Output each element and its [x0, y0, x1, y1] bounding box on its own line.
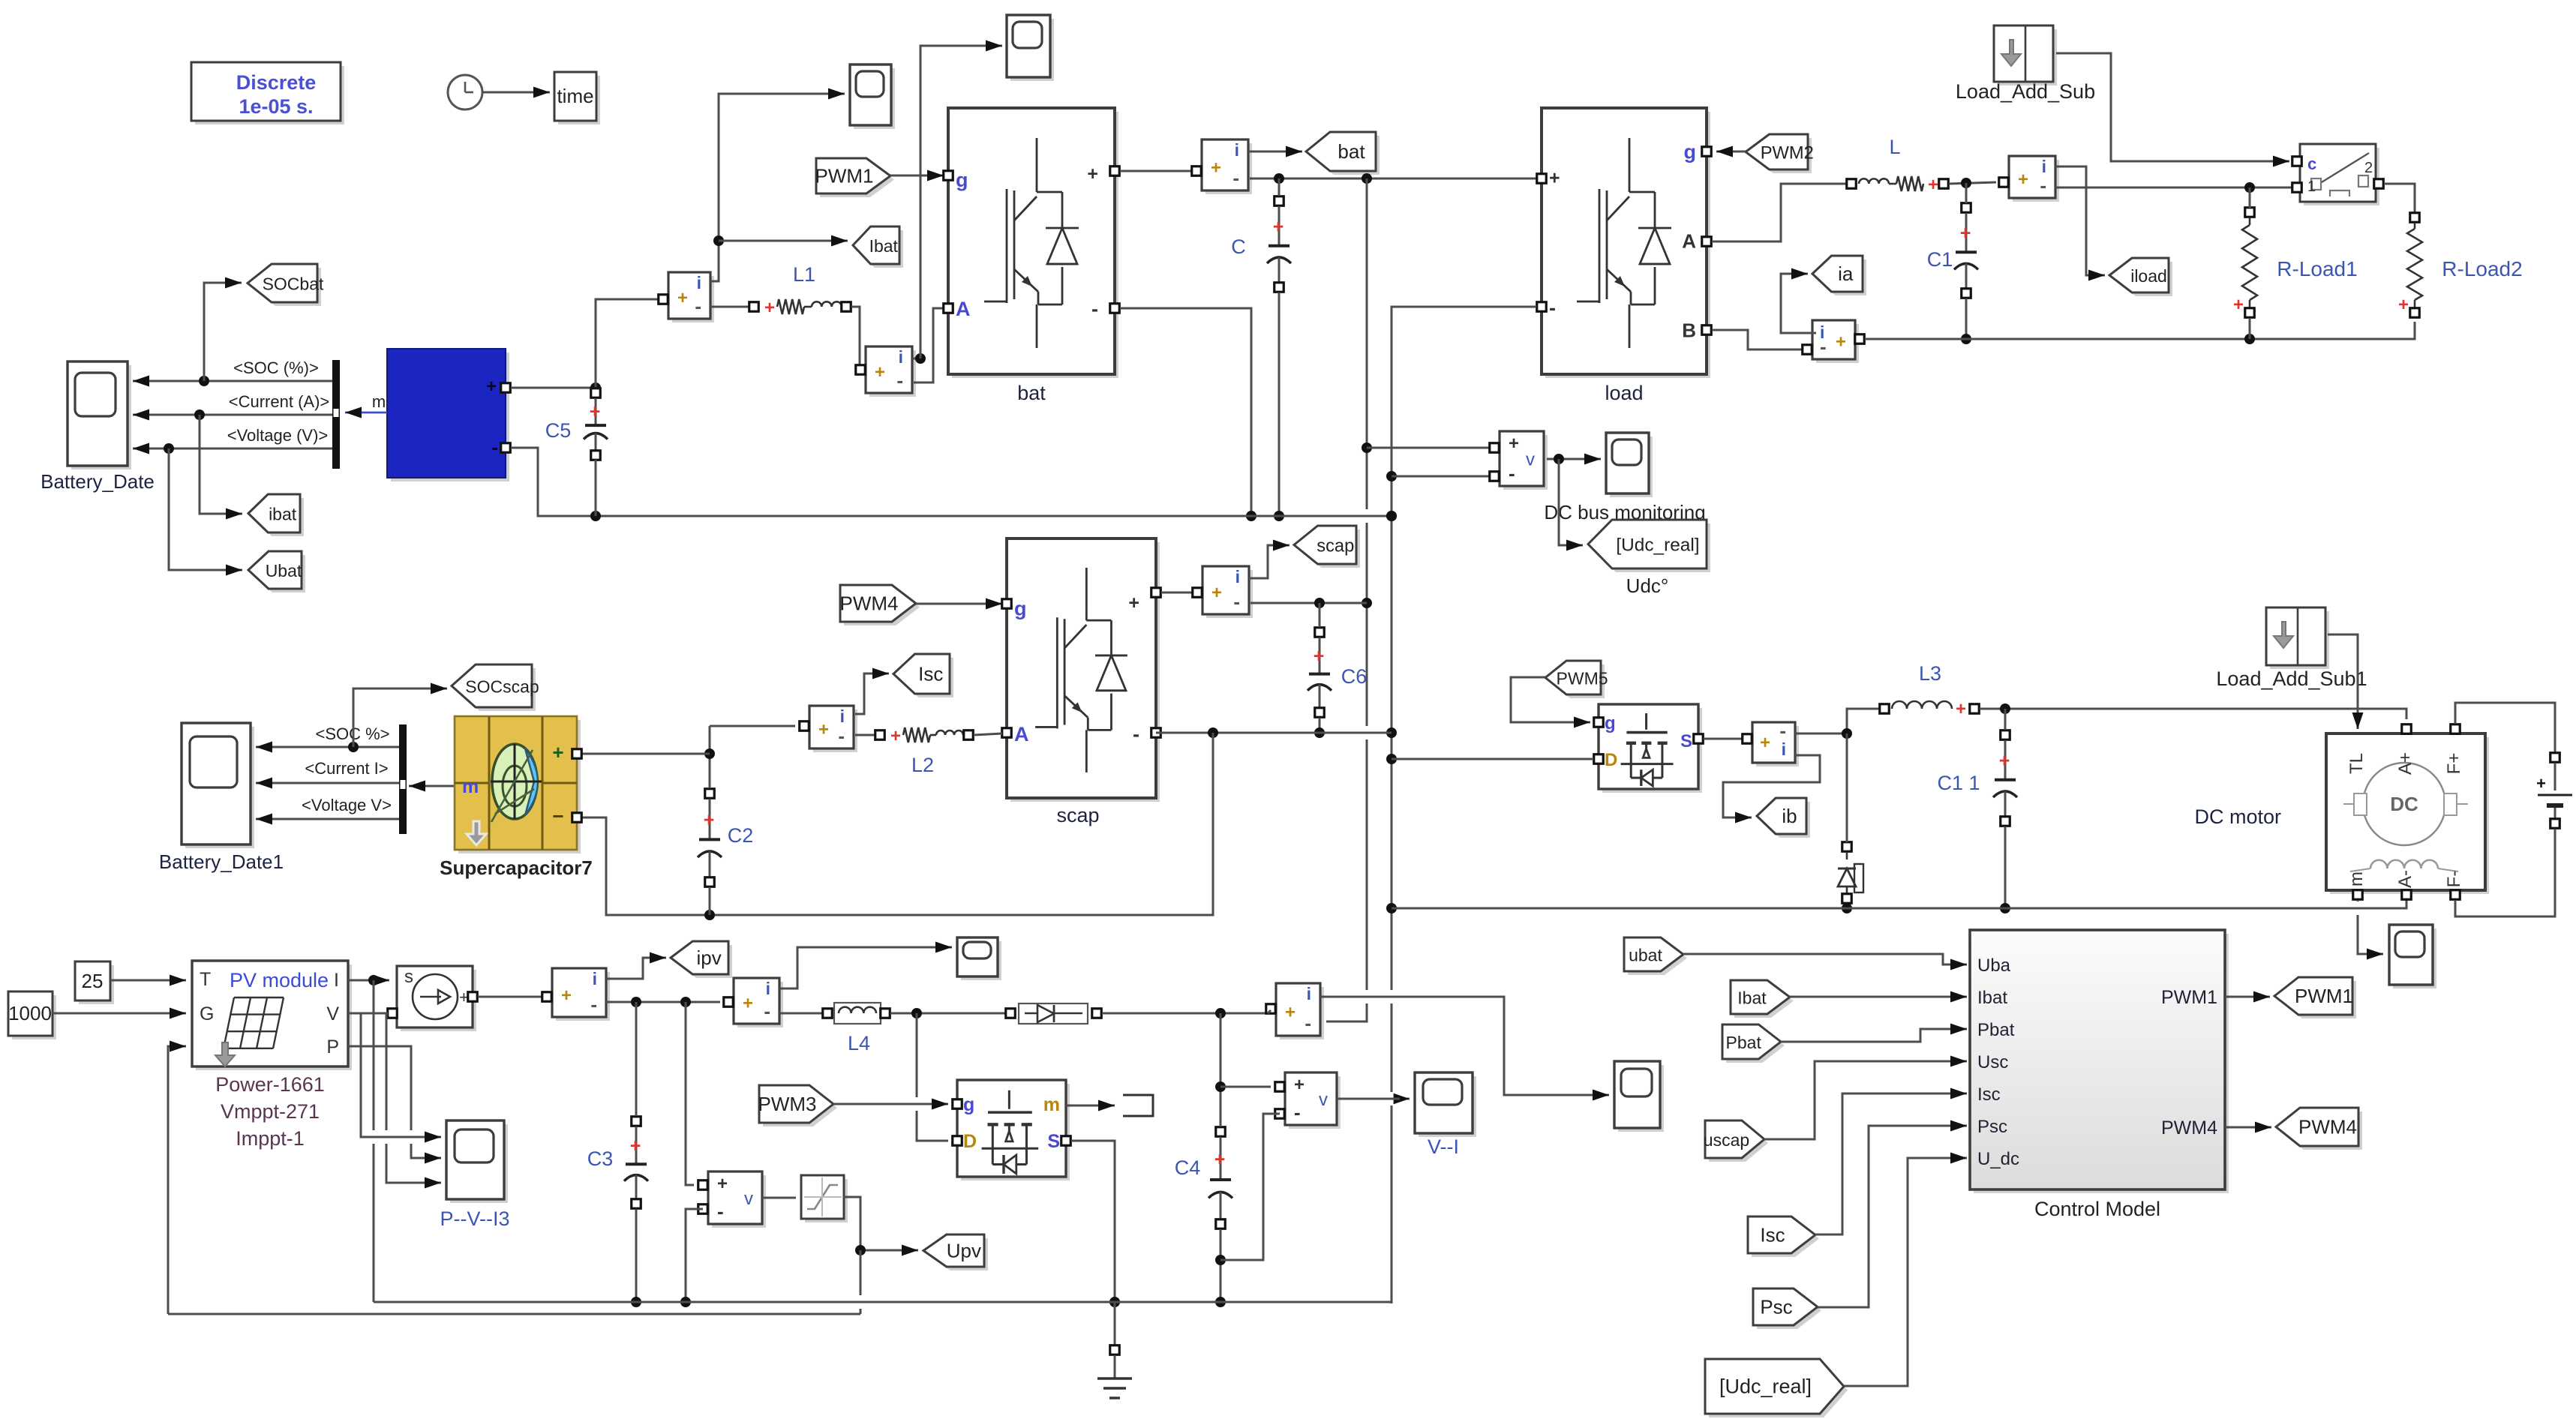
goto tag Ibat	[853, 226, 903, 268]
capacitor C	[1231, 196, 1291, 292]
rail DC motor bottom	[1392, 900, 2406, 908]
svg-text:-: -	[1509, 462, 1515, 484]
svg-text:+: +	[561, 985, 572, 1006]
svg-text:+: +	[2536, 774, 2546, 793]
svg-text:−: −	[552, 805, 563, 827]
terminator	[1123, 1095, 1153, 1116]
from tag PWM3	[758, 1085, 838, 1126]
diode vertical with snubber	[1838, 842, 1863, 904]
wire down to D	[917, 1013, 948, 1141]
svg-text:A: A	[956, 298, 971, 320]
goto tag Upv	[923, 1234, 988, 1270]
wire C4 top stub	[1220, 1013, 1222, 1126]
svg-text:i: i	[899, 347, 903, 367]
junction DCplus rail top	[1362, 173, 1372, 184]
svg-text:+: +	[1549, 167, 1560, 188]
wire D input	[1392, 758, 1593, 760]
svg-text:s: s	[404, 967, 413, 987]
goto tag ibat	[248, 494, 304, 536]
wire sensor2 i to vertical	[912, 358, 920, 360]
wire supercap m to bus (arrow)	[409, 781, 455, 792]
svg-text:C3: C3	[587, 1147, 614, 1170]
svg-text:L4: L4	[848, 1032, 870, 1054]
junction bat minus rail	[1246, 511, 1256, 521]
wire L to C1 junction	[1949, 182, 1996, 184]
svg-text:+: +	[1956, 699, 1966, 719]
wire Vminus tap	[1392, 475, 1489, 478]
svg-text:S: S	[1047, 1131, 1060, 1152]
current sensor Isc	[800, 706, 857, 752]
resistor R-Load2	[2398, 213, 2523, 318]
current sensor scap out	[1193, 566, 1253, 618]
wire sensor6 i to scap tag	[1249, 540, 1290, 579]
wire sensor8 minus	[606, 1001, 720, 1003]
svg-text:ia: ia	[1838, 262, 1854, 285]
subsystem Load_Add_Sub	[1956, 25, 2095, 103]
svg-text:-: -	[1233, 590, 1240, 613]
junction DCminus rail977	[1386, 727, 1397, 738]
svg-text:G: G	[200, 1003, 214, 1024]
svg-text:i: i	[593, 969, 597, 988]
wire load A to L	[1712, 184, 1847, 241]
wire PWM5 to g	[1511, 677, 1590, 728]
wire RLoad1 bottom stub	[2249, 318, 2251, 339]
label SOC(%)	[233, 358, 319, 377]
svg-text:+: +	[486, 376, 497, 397]
wire PWM1 out	[2225, 991, 2270, 1003]
junction x1617 on scap rail	[1208, 727, 1218, 738]
junction C3 rail	[631, 1297, 641, 1307]
wire scap plus to sensor6	[1161, 592, 1197, 594]
svg-text:P--V--I3: P--V--I3	[440, 1207, 509, 1230]
svg-text:Ibat: Ibat	[1977, 988, 2007, 1008]
DC voltage source battery	[2536, 753, 2572, 829]
scope top	[1007, 15, 1054, 81]
from tag Isc2	[1748, 1216, 1819, 1257]
wire V to source minus	[348, 1012, 388, 1015]
PV module block	[192, 961, 352, 1150]
svg-text:[Udc_real]: [Udc_real]	[1719, 1375, 1812, 1398]
wire to Ubat	[169, 448, 242, 576]
svg-text:+: +	[1128, 592, 1139, 613]
svg-text:Control Model: Control Model	[2034, 1198, 2160, 1220]
svg-text:DC motor: DC motor	[2194, 805, 2281, 828]
current sensor iload	[1999, 156, 2059, 202]
label Voltage(V)	[227, 426, 329, 445]
svg-text:T: T	[200, 969, 211, 990]
wire C3 up stub	[635, 1002, 638, 1116]
wire Vplus tap	[1367, 447, 1489, 449]
capacitor C3	[587, 1117, 648, 1209]
wire C bottom to rail	[1278, 292, 1280, 516]
wire load B to sensor4	[1712, 330, 1809, 349]
svg-text:[Udc_real]: [Udc_real]	[1616, 535, 1699, 556]
wire Voltage row	[256, 814, 399, 825]
svg-text:-: -	[1232, 166, 1239, 189]
wire RLoad1 top stub	[2249, 187, 2251, 208]
svg-text:PWM2: PWM2	[1761, 144, 1814, 163]
svg-text:PWM4: PWM4	[2161, 1117, 2217, 1138]
junction C11 top	[2000, 703, 2010, 714]
wire to SOCbat	[204, 277, 242, 382]
svg-text:PWM4: PWM4	[840, 592, 899, 615]
wire C11 top stub	[2004, 709, 2007, 730]
svg-text:Isc: Isc	[918, 663, 943, 685]
scope DC bus monitoring	[1544, 433, 1705, 523]
wire S to ground rail	[1071, 1141, 1115, 1302]
diode block	[1006, 1003, 1102, 1024]
junction supercap plus	[704, 748, 715, 759]
svg-text:-: -	[491, 436, 498, 458]
wire supercap plus	[582, 753, 710, 755]
wire ubat to Uba	[1683, 954, 1967, 970]
wire P to scope in2	[348, 1046, 441, 1164]
wire Current row	[256, 778, 399, 789]
junction C4 V tap	[1215, 1081, 1226, 1092]
from tag ubat	[1624, 937, 1687, 975]
battery block (blue)	[387, 349, 510, 481]
svg-text:PWM1: PWM1	[2161, 987, 2217, 1008]
svg-text:+: +	[630, 1135, 641, 1156]
svg-text:scap: scap	[1317, 537, 1354, 556]
current sensor PV out	[1266, 983, 1324, 1039]
wire diode to junction	[1102, 1012, 1268, 1015]
svg-text:-: -	[1549, 296, 1556, 319]
wire L1 to sensor2	[851, 307, 860, 369]
svg-text:<Current I>: <Current I>	[305, 759, 388, 778]
wire LoadAddSub1 to TL	[2328, 634, 2364, 729]
junction ibat	[194, 409, 205, 420]
svg-text:+: +	[1294, 1075, 1305, 1095]
converter block bat	[944, 108, 1120, 404]
svg-text:Ibat: Ibat	[869, 236, 899, 256]
svg-text:C5: C5	[545, 419, 572, 442]
svg-text:Psc: Psc	[1977, 1117, 2007, 1137]
svg-text:Isc: Isc	[1977, 1084, 2001, 1105]
svg-text:+: +	[677, 288, 688, 308]
svg-text:-: -	[838, 724, 845, 747]
wire S to sensor11	[1704, 738, 1742, 740]
bus selector 1	[332, 360, 340, 469]
svg-text:m: m	[2346, 871, 2367, 886]
current sensor L4 in	[724, 978, 783, 1027]
svg-text:25: 25	[82, 970, 104, 992]
svg-text:+: +	[1836, 332, 1846, 352]
svg-text:+: +	[704, 809, 715, 830]
wire sensor10 plus stub	[1268, 1010, 1271, 1013]
svg-text:ipv: ipv	[697, 946, 722, 969]
svg-text:i: i	[840, 706, 845, 726]
label m	[372, 392, 386, 411]
junction RLoad1 top	[2244, 182, 2255, 193]
from tag uscap	[1704, 1120, 1768, 1162]
svg-text:bat: bat	[1338, 140, 1365, 163]
from tag Udc_real2	[1705, 1359, 1848, 1417]
junction Upv	[855, 1245, 866, 1255]
svg-text:i: i	[697, 273, 701, 292]
capacitor C6	[1308, 628, 1367, 718]
wire Isc to block	[1815, 1088, 1967, 1235]
rail A (PV negative)	[374, 1301, 1392, 1303]
svg-text:F+: F+	[2444, 753, 2464, 775]
svg-text:Usc: Usc	[1977, 1052, 2008, 1072]
wire C3 down stub	[635, 1209, 638, 1302]
goto tag iload	[2109, 258, 2172, 296]
wire source out to sensor8	[478, 996, 543, 998]
svg-text:L1: L1	[793, 263, 815, 286]
svg-text:m: m	[1043, 1094, 1060, 1115]
junction battery plus	[590, 382, 601, 393]
junction C2 bottom	[704, 910, 715, 920]
wire sensor to L1	[710, 306, 749, 308]
controlled current source	[388, 966, 478, 1031]
svg-text:-: -	[695, 295, 701, 317]
saturation block	[801, 1175, 848, 1222]
junction v out	[1554, 454, 1564, 464]
junction C4 top branch	[1215, 1008, 1226, 1018]
wire sensor10 i to scope7	[1320, 997, 1609, 1101]
svg-text:<Current (A)>: <Current (A)>	[229, 392, 330, 411]
current sensor bat out	[1192, 139, 1252, 194]
wire V11 plus	[1220, 1086, 1271, 1088]
wire L3 to motor bus	[1980, 709, 2406, 719]
scope Battery_Date	[41, 361, 155, 493]
wire to Udc_real goto	[1559, 459, 1583, 551]
wire C11 bottom stub	[2004, 826, 2007, 908]
goto tag Isc	[893, 654, 953, 697]
junction V10 minus rail	[680, 1297, 691, 1307]
svg-text:g: g	[1605, 713, 1616, 733]
svg-text:m: m	[372, 392, 386, 411]
capacitor C1	[1927, 203, 1978, 298]
wire sensor to breaker	[2055, 187, 2292, 189]
svg-text:SOCscap: SOCscap	[465, 677, 539, 697]
junction S rail	[1109, 1297, 1120, 1307]
svg-text:1: 1	[2307, 178, 2316, 195]
svg-text:D: D	[963, 1131, 977, 1152]
voltage sensor Upv	[698, 1171, 766, 1228]
svg-text:i: i	[1235, 567, 1240, 586]
svg-text:load: load	[1605, 382, 1643, 404]
scope right of V-I	[1614, 1061, 1664, 1132]
wire C1 top stub	[1965, 183, 1968, 203]
junction sensor2 i	[915, 353, 926, 364]
wire crossing hops	[365, 509, 2366, 1309]
svg-text:1000: 1000	[8, 1002, 52, 1024]
wire Upv feedback down	[860, 1250, 862, 1314]
capacitor C2	[698, 789, 753, 887]
wire I down to rail A	[373, 980, 375, 1302]
svg-text:+: +	[1760, 733, 1770, 753]
svg-text:1e-05 s.: 1e-05 s.	[239, 95, 313, 118]
junction PV I	[368, 975, 379, 985]
junction C1 top	[1961, 178, 1971, 188]
svg-text:ibat: ibat	[269, 505, 297, 524]
time display block	[554, 72, 600, 124]
svg-text:S: S	[1680, 731, 1692, 751]
from tag PWM1	[815, 158, 895, 197]
svg-text:+: +	[1211, 157, 1221, 178]
svg-text:D: D	[1605, 750, 1617, 770]
wire feedback to PV in3	[168, 1041, 186, 1315]
subsystem Control Model	[1970, 930, 2229, 1220]
wire Udc_real to U_dc	[1844, 1153, 1967, 1387]
converter block load	[1537, 108, 1712, 404]
svg-text:+: +	[890, 726, 901, 746]
svg-text:Psc: Psc	[1760, 1296, 1792, 1318]
wire Voltage(V) row	[133, 443, 332, 454]
svg-text:+: +	[2018, 169, 2028, 190]
wire sensor8 i to ipv tag	[606, 952, 666, 979]
wire x1617 down to C2 rail	[582, 733, 1213, 915]
svg-text:m: m	[462, 776, 479, 797]
svg-text:Imppt-1: Imppt-1	[236, 1127, 305, 1150]
svg-text:Discrete: Discrete	[236, 71, 317, 94]
from tag Psc	[1753, 1288, 1821, 1329]
wire C2 bottom stub	[709, 887, 711, 915]
svg-text:Udc°: Udc°	[1626, 574, 1669, 597]
scope Battery_Date1	[159, 723, 284, 873]
wire sensor7 to L2	[855, 734, 875, 736]
wire battery plus	[511, 387, 596, 389]
svg-text:i: i	[1307, 984, 1311, 1003]
series RL branch L1	[749, 263, 851, 318]
svg-text:+: +	[1285, 1003, 1296, 1023]
junction DCminus Vtap	[1386, 471, 1397, 481]
goto tag scap	[1294, 526, 1360, 568]
wire DC plus rail vertical	[1326, 178, 1367, 1021]
svg-text:+: +	[2398, 295, 2409, 315]
svg-text:g: g	[1684, 141, 1697, 163]
subsystem Load_Add_Sub1	[2216, 607, 2367, 690]
series RL branch L2	[875, 726, 974, 776]
svg-text:<SOC (%)>: <SOC (%)>	[233, 358, 319, 377]
wire bat minus down	[1120, 308, 1251, 516]
svg-text:+: +	[1999, 751, 2010, 772]
svg-text:iload: iload	[2130, 266, 2167, 286]
wire sensor11 i to ib tag	[1723, 755, 1820, 823]
wire sensor4 i to ia tag	[1781, 268, 1816, 334]
svg-text:C1 1: C1 1	[1937, 772, 1980, 794]
svg-text:+: +	[590, 401, 601, 422]
svg-text:C2: C2	[728, 824, 754, 847]
goto tag ib	[1757, 798, 1810, 838]
svg-text:Ibat: Ibat	[1737, 988, 1767, 1008]
svg-text:+: +	[818, 719, 829, 739]
wire battery minus to F-	[2455, 829, 2555, 916]
from tag Pbat	[1722, 1024, 1785, 1063]
inductor L4	[823, 1003, 890, 1054]
svg-text:PWM1: PWM1	[2295, 985, 2353, 1007]
from tag PWM4	[840, 585, 920, 625]
svg-text:-: -	[1091, 298, 1098, 320]
wire up to Ibat sensor	[596, 299, 659, 388]
wire C6 top stub	[1319, 603, 1321, 627]
svg-text:Pbat: Pbat	[1977, 1020, 2015, 1040]
goto tag SOCbat	[248, 264, 324, 306]
label SOC%	[315, 724, 389, 743]
wire F+ to battery	[2455, 703, 2555, 753]
wire DC bus plus top	[1250, 178, 1536, 180]
ground connection	[1097, 1302, 1132, 1398]
goto tag PWM4 out	[2276, 1108, 2362, 1150]
svg-text:<Voltage V>: <Voltage V>	[302, 796, 392, 814]
svg-text:+: +	[717, 1174, 728, 1194]
svg-text:C1: C1	[1927, 248, 1953, 271]
svg-text:SOCbat: SOCbat	[263, 274, 324, 294]
svg-text:+: +	[1214, 1149, 1226, 1170]
junction SOCscap	[348, 742, 359, 752]
svg-text:2: 2	[2364, 160, 2373, 176]
wire scap minus rail	[1156, 732, 1392, 734]
svg-text:TL: TL	[2346, 753, 2367, 774]
wire sensor6 minus to DCplus rail	[1250, 602, 1367, 604]
svg-text:C4: C4	[1175, 1156, 1201, 1179]
svg-text:V: V	[326, 1003, 339, 1024]
svg-text:bat: bat	[1017, 382, 1046, 404]
junction SOCbat	[199, 376, 209, 386]
wire SOC% row	[256, 742, 399, 753]
wire iload i down to tag	[2055, 166, 2105, 281]
wire sensor7 i to Isc tag	[855, 668, 889, 715]
svg-text:-: -	[1305, 1012, 1311, 1034]
label Current(A)	[229, 392, 330, 411]
wire Psc to block	[1818, 1120, 1967, 1308]
wire L2 to scap A	[974, 733, 1002, 735]
svg-text:L: L	[1889, 136, 1900, 158]
svg-text:Battery_Date1: Battery_Date1	[159, 850, 284, 873]
wire C4 bottom stub	[1220, 1229, 1222, 1302]
svg-text:+: +	[552, 741, 563, 763]
svg-text:time: time	[557, 85, 593, 107]
svg-text:+: +	[1509, 433, 1519, 454]
junction DCplus scap tap	[1362, 598, 1372, 608]
wire uscap to Usc	[1764, 1056, 1967, 1140]
constant block 25	[75, 961, 114, 1004]
goto tag bat	[1306, 132, 1380, 175]
svg-text:ib: ib	[1782, 805, 1797, 827]
svg-text:Upv: Upv	[947, 1240, 981, 1262]
svg-text:uscap: uscap	[1704, 1130, 1749, 1150]
wire C6 bottom stub	[1319, 718, 1321, 733]
svg-text:-: -	[1820, 335, 1827, 358]
wire sensor3 i to bat tag	[1248, 146, 1302, 157]
svg-text:g: g	[956, 169, 968, 191]
svg-text:Vmppt-271: Vmppt-271	[221, 1100, 320, 1123]
svg-text:+: +	[743, 994, 753, 1014]
svg-text:A: A	[1682, 230, 1696, 253]
svg-text:ubat: ubat	[1629, 946, 1662, 965]
wire v to saturation	[762, 1197, 796, 1199]
wire breaker to RLoad2	[2384, 184, 2415, 212]
junction Ubat	[164, 443, 174, 454]
svg-text:-: -	[896, 369, 903, 391]
wire sensor2 minus to A port	[914, 308, 943, 382]
wire diode down	[1846, 733, 1848, 842]
scope V-I	[1415, 1072, 1476, 1158]
junction DCminus rail688	[1386, 511, 1397, 521]
svg-text:v: v	[744, 1189, 753, 1209]
clock block	[448, 75, 482, 109]
svg-text:L3: L3	[1919, 662, 1941, 685]
svg-text:+: +	[875, 362, 885, 382]
svg-text:L2: L2	[911, 754, 934, 776]
scope PVI3	[440, 1120, 509, 1230]
constant block 1000	[8, 991, 56, 1039]
label Voltage V	[302, 796, 392, 814]
svg-text:Battery_Date: Battery_Date	[41, 470, 155, 493]
wire DC minus rail	[1392, 307, 1536, 1303]
